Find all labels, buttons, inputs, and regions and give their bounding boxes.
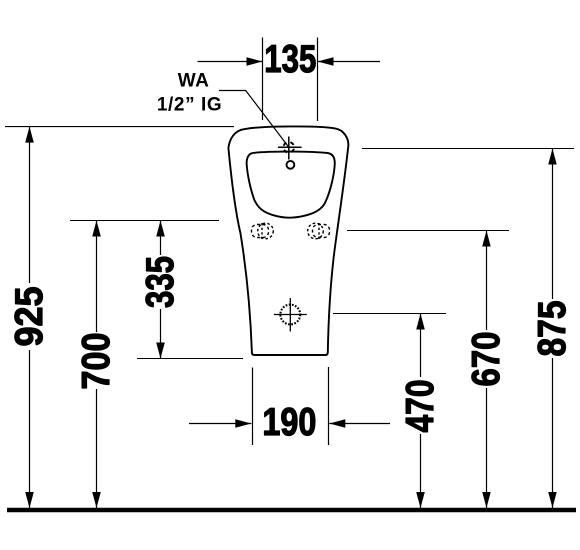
dimension 470 line bbox=[420, 314, 422, 509]
right fixing hole bbox=[308, 223, 330, 239]
dimension 700 line bbox=[96, 221, 98, 509]
svg-text:1/2” IG: 1/2” IG bbox=[157, 95, 222, 116]
svg-text:135: 135 bbox=[264, 38, 316, 81]
dimension 190 arrow lines bbox=[189, 423, 251, 425]
reference line 470 bbox=[333, 313, 446, 315]
outlet crosshair bbox=[274, 298, 307, 332]
reference line 700 bbox=[70, 220, 219, 222]
dimension 335 line bbox=[160, 221, 162, 359]
water inlet crosshair WA bbox=[278, 137, 302, 160]
svg-text:190: 190 bbox=[262, 401, 316, 444]
urinal inner basin rim bbox=[247, 152, 335, 218]
svg-text:925: 925 bbox=[8, 287, 51, 347]
reference line 925 top bbox=[5, 126, 234, 128]
svg-text:WA: WA bbox=[178, 71, 210, 92]
dimension 875 line bbox=[552, 149, 554, 509]
dimension 135 arrow lines bbox=[198, 61, 263, 63]
floor line bbox=[7, 508, 576, 513]
svg-text:700: 700 bbox=[75, 333, 118, 390]
reference line 335 bottom bbox=[137, 358, 243, 360]
svg-text:670: 670 bbox=[465, 332, 508, 387]
svg-text:335: 335 bbox=[139, 256, 182, 308]
dimension 135 extension lines bbox=[262, 38, 264, 121]
svg-text:875: 875 bbox=[531, 301, 574, 357]
dimension 925 line bbox=[29, 127, 31, 508]
urinal outer body outline bbox=[228, 126, 348, 355]
left fixing hole bbox=[252, 223, 274, 239]
svg-text:470: 470 bbox=[399, 380, 442, 433]
reference line 875 top bbox=[362, 148, 574, 150]
inlet hole circle bbox=[287, 161, 295, 169]
dimension 190 extension lines bbox=[252, 368, 254, 446]
reference line 670 bbox=[347, 230, 509, 232]
leader line to inlet bbox=[219, 91, 289, 148]
dimension 670 line bbox=[486, 231, 488, 509]
